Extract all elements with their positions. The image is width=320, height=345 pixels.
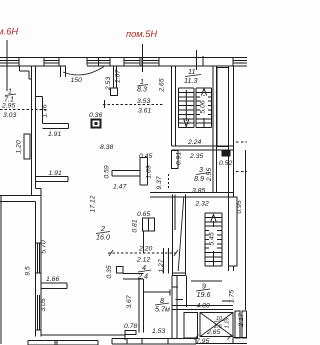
door closer block	[222, 150, 230, 156]
svg-text:2.35: 2.35	[189, 153, 203, 160]
svg-text:1.47: 1.47	[113, 184, 126, 191]
window W2	[44, 58, 59, 66]
svg-text:11: 11	[188, 67, 195, 76]
bar 1.66	[41, 283, 67, 289]
stair1 bottom wall	[172, 146, 234, 150]
stair1 flight steps	[179, 88, 212, 128]
room3 right wall	[213, 150, 216, 192]
lower-left room left edge	[0, 196, 2, 344]
dashed dim 3.53	[103, 104, 163, 106]
svg-text:150: 150	[71, 77, 83, 84]
svg-text:0.52: 0.52	[219, 160, 232, 167]
svg-text:0.65: 0.65	[137, 211, 150, 218]
window hatch left 5.70	[36, 243, 42, 273]
T wall vertical bar	[140, 158, 148, 186]
svg-text:2.95: 2.95	[1, 103, 15, 110]
svg-text:1.27: 1.27	[158, 259, 165, 272]
dashed vline room3	[168, 174, 170, 189]
svg-text:0.35: 0.35	[106, 265, 113, 278]
axis line left	[6, 40, 8, 91]
svg-text:пом.6Н: пом.6Н	[0, 27, 18, 37]
door pillar stair2 right	[229, 197, 238, 266]
wall room3 bottom	[150, 192, 234, 197]
svg-text:2.65: 2.65	[159, 78, 166, 92]
wall room4 right	[164, 248, 169, 274]
bottom inner line	[41, 335, 125, 340]
svg-text:0.78: 0.78	[124, 323, 137, 330]
right edge line	[245, 150, 247, 310]
svg-text:1.67: 1.67	[115, 70, 122, 83]
bottom wall band1	[28, 340, 98, 345]
svg-text:5.7м: 5.7м	[155, 305, 170, 314]
dashed stub right 1	[236, 141, 247, 143]
door opening gap	[66, 65, 87, 67]
elevator shaft	[217, 68, 229, 147]
svg-text:3: 3	[199, 165, 203, 174]
lower-left room right wall	[36, 189, 42, 243]
lower-left room top band	[0, 196, 41, 202]
window hatch left 3.05	[36, 295, 42, 330]
door leaf diagonal	[178, 197, 184, 272]
svg-text:3.53: 3.53	[137, 98, 150, 105]
wall B L-shape	[36, 97, 69, 129]
svg-text:2.55: 2.55	[206, 168, 213, 182]
svg-text:0.95: 0.95	[236, 200, 243, 213]
svg-text:2.12: 2.12	[136, 257, 150, 264]
svg-text:9.5: 9.5	[25, 266, 32, 276]
column sq 0.35	[117, 267, 124, 274]
svg-text:3.05: 3.05	[40, 298, 47, 311]
wall room8 left	[139, 279, 144, 333]
svg-text:19.6: 19.6	[197, 290, 211, 299]
dashed dim 2.20	[108, 252, 177, 254]
wall room4 bottom band	[123, 274, 144, 280]
tick 3.53 left	[104, 100, 106, 108]
stair2 landing line	[191, 280, 222, 282]
svg-text:2.24: 2.24	[187, 139, 201, 146]
wall stub below column	[143, 231, 145, 253]
T wall horizontal bar	[112, 170, 140, 176]
svg-text:2.32: 2.32	[195, 201, 209, 208]
svg-text:5.70: 5.70	[41, 240, 48, 253]
wall A interior left	[31, 66, 35, 196]
door D1 swing arc	[63, 67, 104, 75]
svg-text:3.03: 3.03	[3, 112, 16, 119]
stair2 flight steps	[205, 213, 222, 266]
svg-text:1.91: 1.91	[49, 170, 62, 177]
tick 2.20 left	[109, 250, 113, 256]
tick 7.95 left	[195, 335, 199, 340]
svg-text:1.53: 1.53	[152, 328, 165, 335]
window W4	[124, 58, 140, 66]
window W3	[87, 58, 110, 66]
column pier 0.65	[143, 218, 155, 231]
svg-text:7.95: 7.95	[196, 338, 209, 345]
svg-text:0.81: 0.81	[132, 219, 139, 232]
svg-text:17.12: 17.12	[90, 195, 97, 212]
tick room8	[169, 290, 171, 296]
stair1 down arrow	[184, 90, 189, 127]
right wall cap	[229, 266, 234, 271]
leader line pom5N	[142, 44, 144, 72]
wall room8 top line	[144, 291, 171, 293]
svg-text:1.76: 1.76	[42, 104, 49, 117]
dim line 1.75	[222, 300, 233, 302]
svg-text:9.37: 9.37	[156, 176, 163, 189]
wallA to band stub	[36, 188, 42, 190]
svg-text:2.53: 2.53	[105, 77, 112, 91]
svg-text:2.65: 2.65	[206, 329, 220, 336]
door jamb 0.91	[172, 151, 179, 169]
stair1 left wall	[172, 66, 176, 146]
svg-text:1.20: 1.20	[16, 140, 23, 153]
wall cap bottom-left	[36, 330, 42, 337]
svg-text:0.91: 0.91	[176, 152, 183, 165]
svg-text:1.69: 1.69	[146, 165, 153, 178]
svg-text:0.59: 0.59	[104, 165, 111, 178]
column C1 dot	[95, 123, 97, 125]
room10 crossed box	[200, 313, 233, 337]
svg-text:пом.5Н: пом.5Н	[126, 29, 157, 39]
svg-text:16.0: 16.0	[96, 233, 110, 242]
svg-text:3.61: 3.61	[138, 108, 151, 115]
door leaf wallA	[24, 134, 30, 159]
shaft rect left of box	[184, 313, 198, 339]
window W6 top-right	[233, 58, 247, 66]
step corner room1	[20, 66, 32, 79]
svg-text:0.45: 0.45	[139, 153, 152, 160]
wall right long	[229, 66, 234, 197]
stair2 up arrow	[211, 215, 216, 266]
window W1 top-left	[0, 58, 19, 66]
svg-text:2.17: 2.17	[238, 313, 245, 327]
svg-text:0.36: 0.36	[89, 112, 102, 119]
stair2 left wall	[172, 276, 177, 339]
svg-text:8.3: 8.3	[137, 85, 147, 94]
door frame stair2 left	[172, 195, 185, 276]
stair1 right wall	[213, 66, 216, 150]
svg-text:8.9: 8.9	[194, 174, 204, 183]
right narrow rect2	[242, 311, 247, 338]
column C1	[92, 120, 101, 128]
svg-text:11.3: 11.3	[184, 76, 197, 85]
svg-text:1.15: 1.15	[225, 317, 231, 329]
wall 1.91 bar	[36, 177, 68, 182]
axis stub stair b	[202, 56, 204, 66]
axis stub stair a	[196, 50, 198, 70]
svg-text:8.38: 8.38	[100, 144, 113, 151]
wall room1-8.3 divider	[114, 66, 117, 88]
threshold bar	[125, 331, 136, 335]
window W5	[142, 58, 159, 66]
bottom wall band2	[112, 339, 196, 344]
svg-text:5.06: 5.06	[200, 100, 207, 113]
wall gap white	[36, 273, 42, 295]
svg-text:3.67: 3.67	[126, 295, 133, 308]
stair1 up arrow	[201, 89, 206, 128]
svg-text:2.20: 2.20	[138, 246, 152, 253]
stub room8 right	[176, 299, 184, 301]
svg-text:1.66: 1.66	[46, 276, 59, 283]
bottom wall band3	[233, 338, 247, 344]
dashed dim 2.95	[0, 109, 48, 111]
wall end post	[111, 88, 118, 96]
svg-text:1.91: 1.91	[48, 131, 61, 138]
svg-text:4.00: 4.00	[197, 303, 210, 310]
top exterior wall	[0, 58, 247, 66]
tick 7.95 right	[228, 335, 232, 340]
svg-text:3.85: 3.85	[192, 188, 205, 195]
bottom line right	[196, 343, 247, 345]
right narrow rect1	[235, 311, 240, 338]
wall band above room10	[172, 306, 233, 310]
svg-text:1.75: 1.75	[229, 290, 236, 303]
svg-text:5.45: 5.45	[209, 232, 216, 245]
tick 2.20 right	[174, 250, 178, 256]
stub hline room8 side	[172, 286, 178, 288]
dashed stub right 2	[236, 171, 247, 173]
svg-text:2.4: 2.4	[137, 272, 148, 281]
door D1 jambs	[61, 66, 66, 77]
room9 left edge	[186, 276, 188, 308]
